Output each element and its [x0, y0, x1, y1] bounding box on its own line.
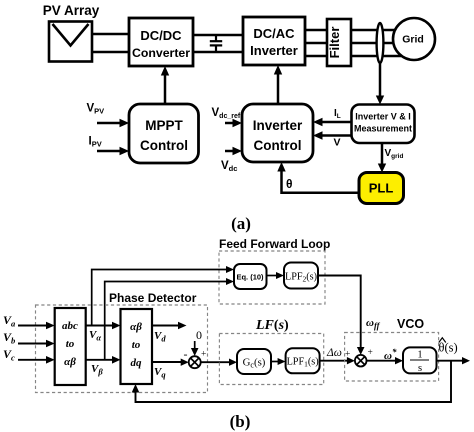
wire LPF2 output to ff summer	[318, 276, 361, 349]
svg-text:to: to	[66, 338, 75, 350]
svg-text:Filter: Filter	[327, 27, 342, 59]
wire V_d (dangling arrow)	[152, 325, 179, 327]
block DC/AC Inverter	[243, 17, 305, 65]
arrow 0 down to summer	[194, 341, 196, 350]
block Gc(s)	[237, 349, 271, 374]
svg-text:Converter: Converter	[132, 46, 190, 60]
svg-text:abc: abc	[62, 320, 78, 332]
svg-text:MPPT: MPPT	[145, 118, 183, 133]
block abc to alphabeta	[55, 308, 86, 385]
feedback wire from output down, left, and up into dq block	[136, 361, 452, 402]
summer VCO (circle with X)	[355, 355, 367, 367]
svg-text:0: 0	[196, 328, 202, 342]
wire PV to DC/DC bottom	[92, 51, 129, 54]
wire theta PLL to Inverter Control	[282, 170, 360, 193]
svg-text:Control: Control	[254, 138, 302, 153]
svg-text:Gc(s): Gc(s)	[243, 357, 266, 370]
svg-text:DC/DC: DC/DC	[140, 28, 182, 43]
svg-text:DC/AC: DC/AC	[253, 26, 295, 41]
svg-text:+: +	[368, 348, 373, 358]
svg-text:+: +	[201, 350, 206, 360]
svg-text:Grid: Grid	[402, 34, 424, 46]
block PLL (yellow)	[359, 173, 404, 204]
3-phase wires DC/AC to Filter	[305, 29, 327, 32]
svg-text:Control: Control	[140, 138, 188, 153]
wire PV to DC/DC top	[92, 33, 129, 36]
PV array box	[49, 22, 92, 62]
arrow V_a	[18, 325, 47, 327]
arrow V_c	[18, 359, 47, 361]
wire DC/DC to DC/AC top	[193, 34, 243, 37]
svg-text:LF(s): LF(s)	[255, 318, 289, 333]
svg-text:-: -	[184, 347, 188, 361]
wire V measurement to inverter control	[321, 134, 352, 137]
wire MPPT to DC/DC (arrow up)	[164, 74, 167, 104]
svg-text:dq: dq	[131, 357, 143, 369]
wire V_beta	[86, 359, 113, 361]
block 1/s	[403, 347, 437, 373]
dashed box LF(s)	[219, 334, 323, 385]
summer phase detector (circle with X)	[189, 356, 201, 368]
dashed box Phase Detector	[36, 305, 208, 393]
arrow V_PV	[97, 122, 121, 125]
measurement probe ellipse	[377, 23, 384, 63]
block LPF1(s)	[286, 348, 320, 373]
svg-text:Inverter: Inverter	[253, 118, 303, 133]
wire VCO summer to 1/s	[367, 360, 397, 362]
dashed box VCO	[345, 333, 439, 382]
arrow Gc to LPF1	[271, 361, 279, 363]
svg-text:αβ: αβ	[130, 321, 142, 333]
block Inverter V & I Measurement	[352, 105, 415, 144]
arrow V_dc_ref	[225, 122, 234, 125]
svg-text:Inverter: Inverter	[250, 43, 298, 58]
wire I_L measurement to inverter control	[321, 121, 352, 124]
wire riser V_alpha to Eq(10) upper input	[92, 270, 227, 326]
svg-text:VCO: VCO	[397, 317, 424, 331]
capacitor (DC link)	[215, 35, 217, 41]
block MPPT Control	[129, 104, 199, 163]
svg-text:Eq. (10): Eq. (10)	[236, 273, 264, 282]
dashed box Feed Forward Loop	[219, 251, 325, 304]
svg-text:PLL: PLL	[369, 181, 394, 196]
arrow I_PV	[97, 150, 121, 153]
svg-text:(a): (a)	[231, 214, 251, 233]
wire 1/s output	[437, 360, 464, 362]
svg-text:(b): (b)	[230, 412, 251, 431]
block Inverter Control	[242, 104, 313, 162]
svg-text:LPF1(s): LPF1(s)	[287, 357, 319, 369]
block DC/DC Converter	[129, 18, 193, 66]
wire V_grid measurement to PLL	[381, 143, 384, 165]
wire V_alpha	[86, 325, 113, 327]
block Filter	[327, 19, 351, 66]
wire summer to Gc(s)	[201, 361, 230, 363]
arrow Eq(10) to LPF2	[267, 275, 278, 277]
svg-text:Δω: Δω	[326, 347, 342, 359]
svg-text:LPF2(s): LPF2(s)	[285, 272, 317, 284]
svg-text:Measurement: Measurement	[354, 124, 412, 134]
block alphabeta to dq	[121, 309, 153, 384]
block LPF2(s)	[284, 263, 318, 289]
arrow V_b	[18, 343, 47, 345]
arrow V_dc	[225, 150, 234, 153]
wire Inverter Control to DC/AC (arrow up)	[277, 73, 280, 104]
svg-text:to: to	[132, 339, 141, 351]
svg-text:s: s	[418, 363, 422, 374]
svg-text:Feed Forward Loop: Feed Forward Loop	[219, 237, 330, 251]
3-phase wires Filter to Grid	[351, 29, 401, 32]
wire LPF1 to VCO summer	[320, 360, 348, 362]
svg-text:αβ: αβ	[64, 356, 76, 368]
svg-text:V: V	[334, 137, 341, 149]
svg-text:PV Array: PV Array	[43, 3, 100, 18]
PV chevron symbol	[53, 24, 89, 46]
svg-text:+: +	[345, 350, 350, 360]
svg-text:θ(s): θ(s)	[439, 341, 458, 355]
wire V_q to summer	[152, 361, 182, 363]
wire DC/DC to DC/AC bottom	[193, 51, 243, 54]
wire probe down to measurement box	[379, 63, 382, 99]
svg-text:1: 1	[417, 350, 422, 361]
svg-text:Inverter V & I: Inverter V & I	[355, 112, 411, 122]
Grid circle	[393, 18, 435, 60]
block Eq. (10)	[234, 264, 267, 289]
wire riser V_beta to Eq(10) lower input	[105, 282, 227, 360]
svg-text:θ: θ	[286, 177, 293, 191]
svg-text:Phase Detector: Phase Detector	[109, 291, 197, 305]
